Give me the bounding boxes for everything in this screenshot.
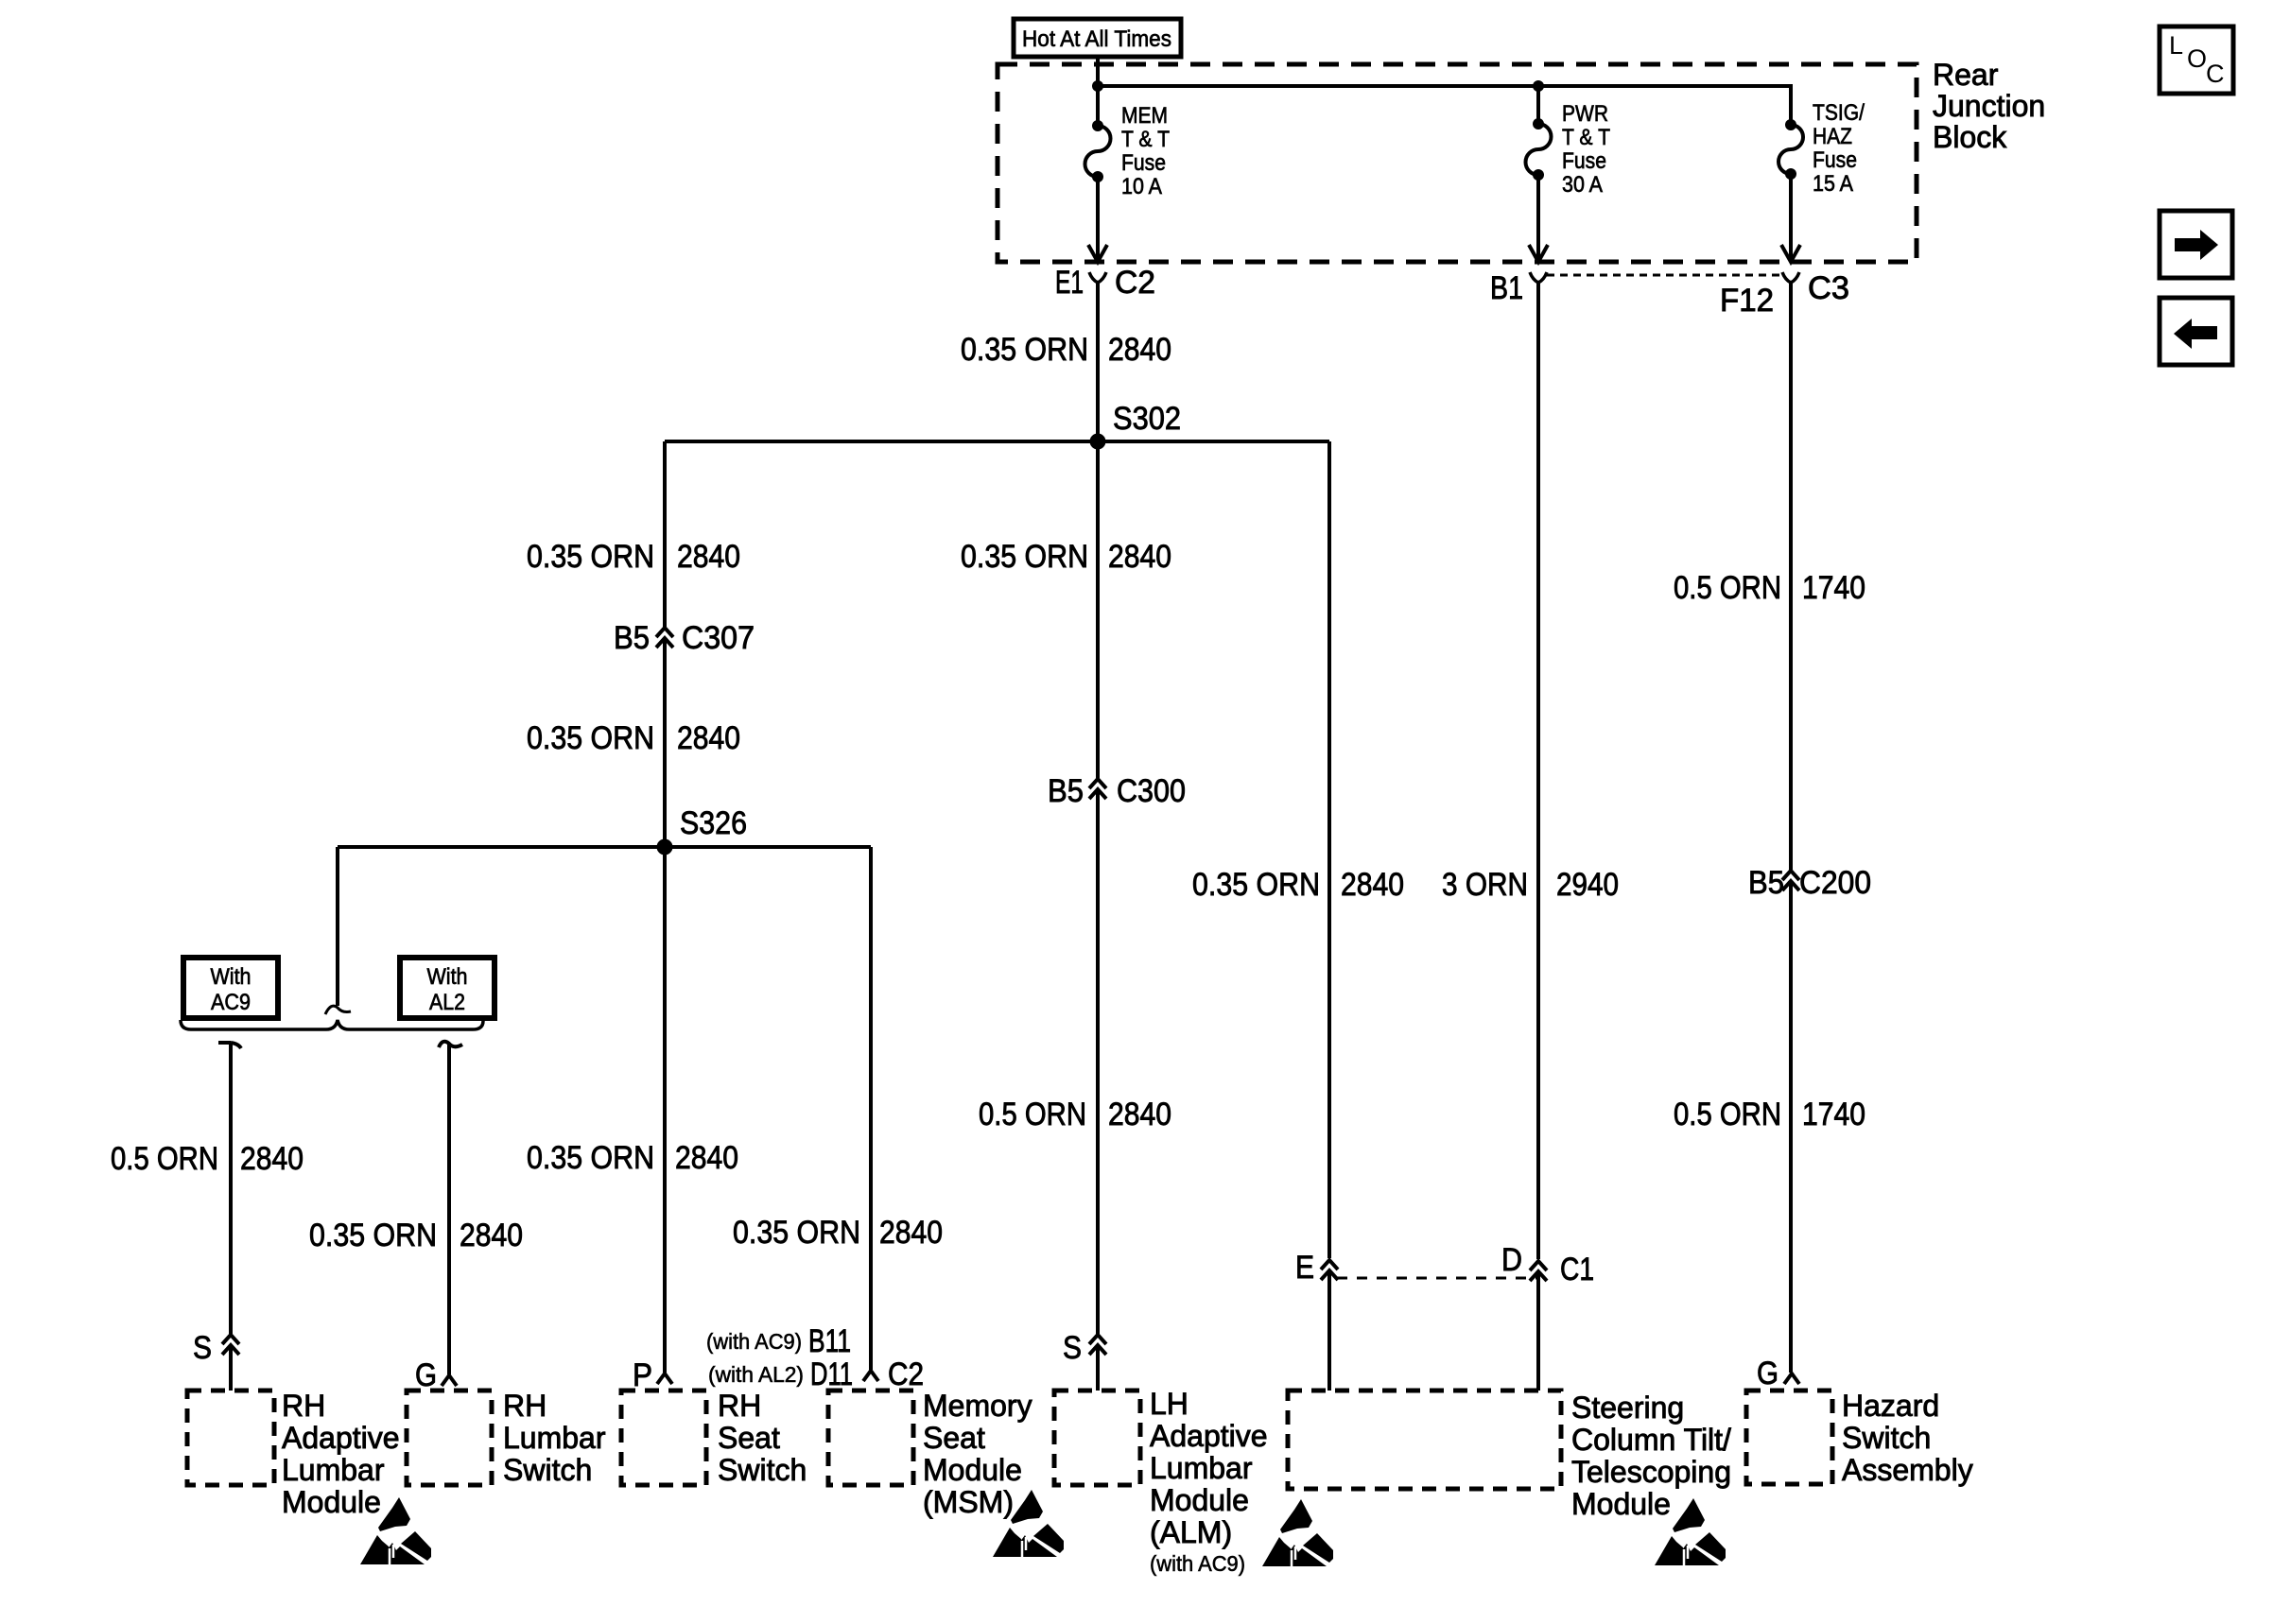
- svg-text:S: S: [1063, 1330, 1082, 1366]
- ESD symbol below Memory Seat Module: [993, 1490, 1064, 1557]
- svg-text:S302: S302: [1113, 401, 1181, 437]
- option label box With AC9: [183, 958, 278, 1018]
- svg-text:Lumbar: Lumbar: [1150, 1451, 1253, 1485]
- svg-text:D: D: [1501, 1242, 1522, 1278]
- connector C200 pin B5: [1748, 865, 1871, 901]
- svg-text:Memory: Memory: [923, 1389, 1032, 1423]
- wire 0.35 ORN 2840 from S326 right branch to Memory Seat Module: [733, 847, 943, 1370]
- svg-text:0.5 ORN: 0.5 ORN: [1674, 1097, 1781, 1132]
- ESD symbol below RH Lumbar Switch: [360, 1497, 431, 1564]
- svg-text:S: S: [193, 1330, 212, 1366]
- icon: left arrow box: [2160, 298, 2232, 365]
- svg-text:1740: 1740: [1802, 1097, 1865, 1132]
- svg-text:Seat: Seat: [923, 1421, 985, 1455]
- wire 0.35 ORN 2840 from E1 to S302: [961, 283, 1171, 441]
- svg-text:0.35 ORN: 0.35 ORN: [961, 332, 1088, 368]
- fuse MEM T&T Fuse 10 A: [1085, 103, 1171, 199]
- svg-text:Rear: Rear: [1933, 58, 1999, 92]
- svg-text:Hot At All Times: Hot At All Times: [1022, 26, 1171, 52]
- splice S326: [657, 805, 748, 855]
- svg-text:S326: S326: [680, 805, 747, 841]
- svg-text:T & T: T & T: [1562, 125, 1610, 150]
- wire 0.5 ORN 1740 from F12 to C200: [1674, 283, 1865, 870]
- svg-text:P: P: [633, 1357, 652, 1393]
- wire 0.5 ORN 2840 from C300 to LH ALM: [979, 790, 1171, 1334]
- wire: TSIG fuse output with arrow: [1781, 174, 1800, 262]
- wire: PWR fuse output with arrow: [1529, 175, 1548, 262]
- svg-text:RH: RH: [282, 1389, 325, 1423]
- icon: LOC reference box: [2160, 26, 2233, 94]
- svg-text:AL2: AL2: [429, 990, 465, 1015]
- svg-text:2840: 2840: [677, 539, 740, 575]
- svg-text:Fuse: Fuse: [1121, 150, 1166, 176]
- connector C1 pin D: [1501, 1242, 1594, 1287]
- svg-text:Hazard: Hazard: [1842, 1389, 1939, 1423]
- svg-text:2840: 2840: [879, 1215, 943, 1251]
- svg-text:0.35 ORN: 0.35 ORN: [961, 539, 1088, 575]
- svg-text:0.35 ORN: 0.35 ORN: [527, 539, 654, 575]
- svg-text:2840: 2840: [1108, 1097, 1171, 1132]
- svg-text:0.5 ORN: 0.5 ORN: [979, 1097, 1086, 1132]
- brace: alternatives bracket: [181, 1020, 483, 1029]
- svg-text:2840: 2840: [1108, 332, 1171, 368]
- wire 0.35 ORN 2840 from S302 to C300: [961, 441, 1171, 778]
- svg-text:Junction: Junction: [1933, 89, 2045, 123]
- wire: bus to MEM fuse: [1096, 86, 1100, 126]
- connector C300 pin B5: [1048, 773, 1186, 809]
- svg-text:Assembly: Assembly: [1842, 1453, 1973, 1487]
- svg-text:Adaptive: Adaptive: [1150, 1419, 1268, 1453]
- svg-text:L: L: [2169, 31, 2183, 60]
- svg-text:2840: 2840: [240, 1141, 304, 1177]
- wire 0.35 ORN 2840 from S302 right branch to connector E: [1192, 441, 1404, 1258]
- LH Adaptive Lumbar Module (ALM) box: [1054, 1387, 1268, 1576]
- connector C307 pin B5: [614, 620, 755, 656]
- wire: battery feed from Hot At All Times into junction block: [1096, 57, 1100, 86]
- svg-text:E: E: [1295, 1250, 1314, 1286]
- label box "Hot At All Times": [1014, 19, 1181, 57]
- svg-text:3 ORN: 3 ORN: [1442, 867, 1528, 903]
- svg-text:Switch: Switch: [503, 1453, 592, 1487]
- fuse TSIG/HAZ Fuse 15 A: [1778, 100, 1865, 197]
- svg-text:HAZ: HAZ: [1813, 124, 1852, 149]
- svg-text:0.35 ORN: 0.35 ORN: [309, 1218, 437, 1253]
- svg-text:Fuse: Fuse: [1813, 147, 1857, 173]
- Hazard Switch Assembly box: [1746, 1389, 1973, 1487]
- svg-text:Module: Module: [1571, 1487, 1671, 1521]
- svg-text:C200: C200: [1799, 865, 1871, 901]
- node: bus junction at MEM fuse: [1092, 80, 1103, 92]
- svg-text:Module: Module: [282, 1485, 381, 1519]
- connector C3 pin F12: [1720, 270, 1849, 319]
- wire: MEM fuse output with arrow: [1088, 177, 1107, 262]
- svg-text:F12: F12: [1720, 283, 1774, 319]
- svg-text:B5: B5: [614, 620, 650, 656]
- svg-text:C300: C300: [1117, 773, 1186, 809]
- svg-text:2840: 2840: [1341, 867, 1404, 903]
- svg-text:10 A: 10 A: [1121, 174, 1162, 199]
- svg-text:C2: C2: [1115, 265, 1155, 301]
- svg-text:B5: B5: [1048, 773, 1084, 809]
- svg-text:Telescoping: Telescoping: [1571, 1455, 1731, 1489]
- wire 0.5 ORN 2840 to RH Adaptive Lumbar Module: [111, 1043, 304, 1334]
- svg-text:MEM: MEM: [1121, 103, 1168, 129]
- svg-text:0.35 ORN: 0.35 ORN: [1192, 867, 1320, 903]
- svg-text:Column Tilt/: Column Tilt/: [1571, 1423, 1731, 1457]
- svg-text:15 A: 15 A: [1813, 171, 1853, 197]
- wire: dashed connector line E to D: [1337, 1277, 1539, 1280]
- Steering Column Tilt/Telescoping Module box: [1288, 1391, 1731, 1521]
- wire: bus to PWR fuse: [1536, 86, 1540, 124]
- svg-text:Module: Module: [1150, 1483, 1249, 1517]
- svg-text:2840: 2840: [675, 1140, 738, 1176]
- svg-text:B5: B5: [1748, 865, 1784, 901]
- wire 0.35 ORN 2840 from C307 to S326: [527, 639, 740, 847]
- svg-text:Switch: Switch: [1842, 1421, 1931, 1455]
- svg-text:2840: 2840: [1108, 539, 1171, 575]
- node: bus junction at PWR fuse: [1533, 80, 1544, 92]
- connector pin G at RH Lumbar Switch: [415, 1357, 457, 1393]
- option label box With AL2: [400, 958, 495, 1018]
- svg-text:Fuse: Fuse: [1562, 148, 1606, 174]
- connector pin P at RH Seat Switch: [633, 1357, 672, 1393]
- svg-text:(MSM): (MSM): [923, 1485, 1014, 1519]
- svg-text:2840: 2840: [677, 720, 740, 756]
- svg-text:AC9: AC9: [211, 990, 251, 1015]
- svg-text:B1: B1: [1490, 270, 1523, 306]
- svg-text:G: G: [415, 1357, 437, 1393]
- svg-text:With: With: [211, 964, 252, 990]
- wire: E to Steering Column module: [1327, 1271, 1331, 1391]
- connector pin S at LH Adaptive Lumbar Module: [1063, 1330, 1106, 1391]
- splice S302: [1090, 401, 1182, 450]
- wire 0.35 ORN 2840 to RH Lumbar Switch: [309, 1042, 523, 1374]
- svg-text:2840: 2840: [460, 1218, 523, 1253]
- connector C2 pin E1: [1055, 265, 1155, 301]
- Rear Junction Block label: [1933, 58, 2045, 154]
- connector pin G at Hazard Switch Assembly: [1757, 1356, 1799, 1391]
- wire: junction block bus: [1098, 86, 1791, 125]
- svg-text:1740: 1740: [1802, 570, 1865, 606]
- svg-text:G: G: [1757, 1356, 1778, 1391]
- svg-text:30 A: 30 A: [1562, 172, 1603, 198]
- svg-text:TSIG/: TSIG/: [1813, 100, 1865, 126]
- svg-text:O: O: [2187, 44, 2207, 73]
- Rear Junction Block dashed box: [998, 64, 1917, 262]
- RH Lumbar Switch box: [407, 1389, 606, 1487]
- ESD symbol below Steering Column module: [1655, 1498, 1726, 1565]
- icon: right arrow box: [2160, 211, 2232, 278]
- connector pin S at RH Adaptive Lumbar Module: [193, 1330, 239, 1391]
- wire: dashed connector line B1 to F12: [1547, 274, 1779, 277]
- svg-text:(with AL2): (with AL2): [708, 1362, 804, 1387]
- svg-text:PWR: PWR: [1562, 101, 1608, 127]
- svg-text:0.5 ORN: 0.5 ORN: [111, 1141, 218, 1177]
- svg-text:Adaptive: Adaptive: [282, 1421, 400, 1455]
- ESD symbol below LH ALM: [1262, 1499, 1333, 1566]
- svg-text:0.35 ORN: 0.35 ORN: [733, 1215, 860, 1251]
- svg-text:2940: 2940: [1556, 867, 1619, 903]
- wire 0.35 ORN 2840 from S326 to RH Seat Switch: [527, 847, 738, 1373]
- RH Seat Switch box: [621, 1389, 807, 1487]
- svg-text:Module: Module: [923, 1453, 1022, 1487]
- svg-text:C2: C2: [888, 1356, 924, 1392]
- svg-text:C1: C1: [1560, 1252, 1594, 1287]
- svg-text:Steering: Steering: [1571, 1391, 1684, 1425]
- svg-text:C3: C3: [1808, 270, 1849, 306]
- connector C2 pins B11 (with AC9) / D11 (with AL2): [706, 1323, 924, 1392]
- fuse PWR T&T Fuse 30 A: [1526, 101, 1611, 198]
- svg-text:Block: Block: [1933, 120, 2007, 154]
- svg-text:D11: D11: [810, 1356, 853, 1392]
- connector C1 pin E: [1295, 1250, 1338, 1286]
- svg-text:T & T: T & T: [1121, 127, 1170, 152]
- svg-text:(with AC9): (with AC9): [706, 1329, 802, 1354]
- connector pin B1: [1490, 270, 1547, 306]
- svg-text:Seat: Seat: [718, 1421, 780, 1455]
- svg-text:C: C: [2206, 60, 2225, 88]
- wire: D to Steering Column module: [1536, 1272, 1540, 1391]
- svg-text:RH: RH: [718, 1389, 761, 1423]
- svg-text:Lumbar: Lumbar: [503, 1421, 606, 1455]
- wire 0.35 ORN 2840 from S302 down to C307: [527, 441, 740, 627]
- svg-text:0.35 ORN: 0.35 ORN: [527, 1140, 654, 1176]
- wire: S326 left drop with break squiggle: [325, 847, 351, 1014]
- svg-text:E1: E1: [1055, 265, 1084, 301]
- svg-text:0.5 ORN: 0.5 ORN: [1674, 570, 1781, 606]
- svg-text:(ALM): (ALM): [1150, 1515, 1232, 1549]
- wire: S326 horizontal branch: [338, 845, 871, 849]
- svg-text:RH: RH: [503, 1389, 547, 1423]
- svg-text:B11: B11: [808, 1323, 851, 1359]
- svg-text:C307: C307: [682, 620, 755, 656]
- svg-text:0.35 ORN: 0.35 ORN: [527, 720, 654, 756]
- wire 3 ORN 2940 from B1 to connector D: [1442, 283, 1619, 1259]
- wire 0.5 ORN 1740 from C200 to Hazard Switch: [1674, 882, 1865, 1373]
- RH Adaptive Lumbar Module box: [187, 1389, 400, 1519]
- svg-text:(with AC9): (with AC9): [1150, 1551, 1245, 1576]
- Memory Seat Module (MSM) box: [828, 1389, 1032, 1519]
- wire: S302 horizontal branch: [665, 440, 1329, 443]
- svg-text:LH: LH: [1150, 1387, 1189, 1421]
- svg-text:With: With: [427, 964, 468, 990]
- svg-text:Switch: Switch: [718, 1453, 807, 1487]
- svg-text:Lumbar: Lumbar: [282, 1453, 385, 1487]
